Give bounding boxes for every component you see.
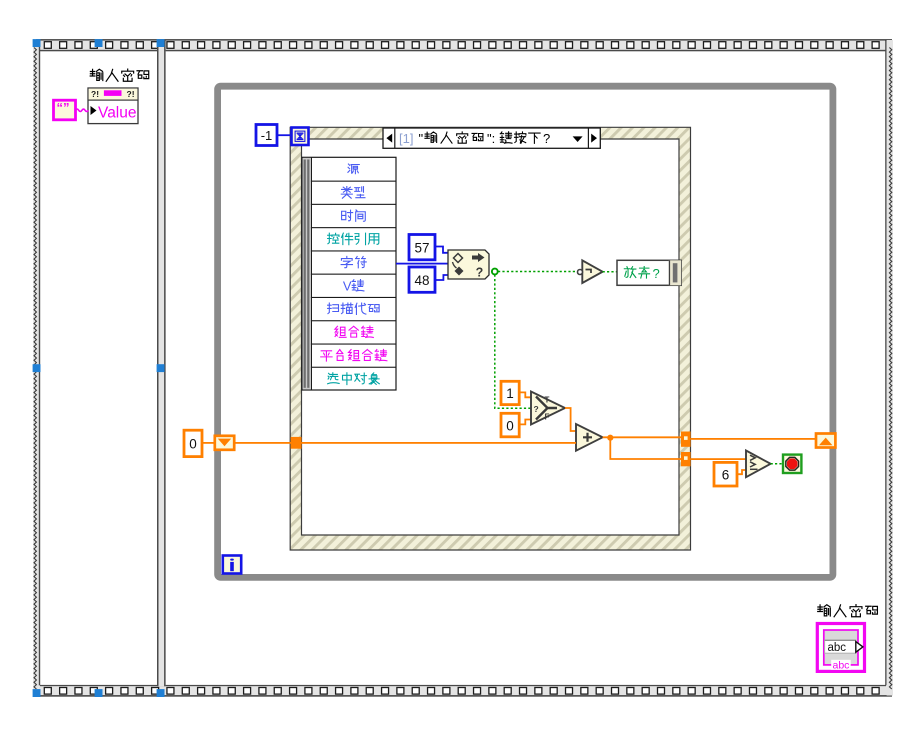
film strip perforations bottom — [44, 688, 879, 695]
svg-text:48: 48 — [414, 273, 429, 288]
svg-text:":: ": — [487, 131, 495, 146]
In Range and Coerce node — [448, 250, 489, 280]
wire: 0 to select f input — [519, 420, 531, 425]
event tunnel left (orange) — [291, 437, 302, 449]
shift register left terminal — [215, 436, 234, 450]
wire: tunnel to add node — [302, 442, 577, 444]
svg-text:57: 57 — [414, 240, 429, 255]
wire: junction down to lower tunnel — [610, 438, 681, 459]
event filter terminal: discard? — [617, 260, 681, 285]
svg-text:0: 0 — [506, 419, 514, 434]
wire: in-range to Not gate (green dotted) — [498, 271, 577, 273]
event case selector header — [383, 128, 600, 148]
svg-text:“”: “” — [57, 100, 70, 115]
svg-text:?: ? — [534, 404, 539, 414]
sequence frame divider — [157, 41, 166, 687]
svg-text:abc: abc — [833, 660, 850, 672]
wire: 57 to upper limit — [435, 247, 448, 253]
svg-text:-1: -1 — [261, 128, 273, 143]
wire: lower tunnel to greater-equal — [691, 458, 746, 460]
svg-text:[1]: [1] — [399, 131, 413, 146]
Add node — [576, 424, 603, 451]
string control terminal (abc) — [817, 624, 864, 672]
selection handles — [33, 39, 165, 697]
film strip perforations top — [44, 42, 879, 49]
svg-text:?: ? — [653, 266, 660, 281]
wire: upper tunnel to right shift register — [691, 438, 816, 440]
wire: 6 to greater-equal — [737, 470, 746, 474]
Not gate — [578, 260, 603, 283]
svg-text:Value: Value — [98, 105, 137, 122]
numeric constant 1 — [501, 381, 519, 404]
numeric constant 6 — [714, 462, 737, 486]
svg-text:abc: abc — [828, 642, 847, 654]
right zigzag edge — [889, 48, 891, 690]
while loop border — [218, 86, 833, 577]
wire: char event item to x input — [396, 263, 448, 265]
numeric constant 0 (shift register init) — [184, 430, 202, 456]
wire: Not to discard terminal (green dotted) — [603, 271, 617, 273]
in range? output junction — [492, 269, 498, 275]
event structure border (hatched) — [290, 127, 690, 550]
numeric constant -1 (timeout) — [256, 125, 277, 146]
svg-text:F: F — [545, 412, 550, 421]
svg-text:6: 6 — [722, 468, 730, 483]
wire: 1 to select t input — [519, 392, 531, 397]
event structure timeout terminal (hourglass) — [292, 128, 309, 146]
svg-text:": " — [419, 131, 424, 146]
wire: string constant to Value property (pink wavy) — [76, 109, 89, 111]
svg-text:?: ? — [543, 131, 550, 146]
event tunnel right lower — [681, 452, 691, 466]
svg-text:0: 0 — [189, 437, 197, 452]
svg-text:?: ? — [476, 266, 484, 280]
event tunnel right upper — [681, 432, 691, 447]
Select node — [531, 392, 565, 425]
stop button terminal — [783, 455, 801, 473]
wire: in-range down to select (green dotted) — [495, 275, 531, 409]
numeric constant 0 (select false) — [501, 413, 519, 437]
wire: -1 to timeout terminal — [277, 134, 292, 136]
svg-text:T: T — [545, 395, 550, 404]
svg-text:?!: ?! — [127, 89, 135, 99]
svg-text:1: 1 — [506, 386, 514, 401]
wire: greater-equal to stop (green dotted) — [771, 463, 783, 465]
iteration terminal i — [223, 556, 241, 574]
wire: shift register to event tunnel — [234, 442, 291, 444]
wire: select out to add — [565, 408, 576, 431]
svg-text:V: V — [343, 278, 352, 293]
numeric constant 57 — [409, 235, 435, 260]
svg-text:?!: ?! — [91, 89, 99, 99]
left zigzag edge — [34, 48, 36, 690]
shift register right terminal — [816, 434, 835, 448]
label: input-password (bottom right) — [818, 605, 878, 617]
wire: 0 to left shift register — [202, 442, 215, 444]
numeric constant 48 — [409, 267, 435, 292]
Greater Or Equal node — [746, 451, 771, 478]
wire: add out with junction — [603, 436, 681, 438]
label: input-password (frame 1) — [90, 69, 149, 81]
string constant (empty) — [54, 100, 76, 120]
property node: Value (of string control) — [88, 88, 138, 124]
event data node — [302, 157, 396, 390]
wire: 48 to lower limit — [435, 275, 448, 280]
